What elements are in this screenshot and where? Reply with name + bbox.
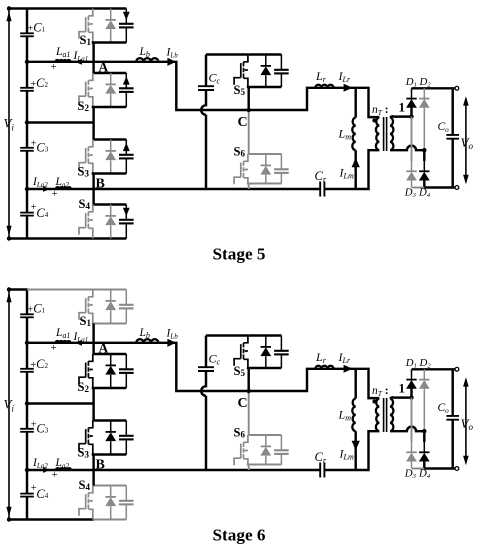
S2 cell top wire (94, 353, 127, 355)
S3 cell top wire (94, 419, 127, 421)
diode D4 (black) (423, 442, 425, 452)
current arrow ILa2 (right) (43, 467, 50, 473)
S5 cell bottom wire (247, 367, 282, 369)
svg-text:1: 1 (399, 381, 406, 396)
output terminal top (455, 86, 459, 90)
Lm lower lead (354, 150, 356, 189)
svg-text:C: C (238, 396, 248, 411)
S1 cell bottom wire (92, 323, 127, 325)
S6 source lead (247, 459, 249, 464)
current arrow ILa1 (left) (75, 59, 82, 65)
svg-text:B: B (96, 458, 105, 473)
transformer polarity dot (372, 119, 376, 123)
transformer polarity dot (372, 400, 376, 404)
S5 diode lead (265, 356, 267, 368)
bridge bottom rail gray segment (412, 468, 425, 470)
S4 snubber capacitor (125, 486, 127, 501)
secondary bottom lead with hop over left bridge leg (390, 146, 424, 151)
Vi arrowhead up (6, 11, 11, 21)
inductor Lb (136, 58, 158, 62)
Vi top dot (7, 287, 11, 291)
output voltage annotation Vo (465, 99, 467, 182)
S6 body diode (265, 154, 267, 165)
transformer primary winding (376, 399, 379, 432)
S5 body diode (265, 336, 267, 347)
transistor S3 (MOSFET) (88, 421, 92, 428)
Vo arrowhead down (463, 456, 469, 465)
capacitor Cr (320, 182, 324, 197)
S6 cell bottom wire (247, 183, 282, 185)
S2 cell bottom wire (92, 387, 127, 389)
S1 leg to node A (92, 43, 94, 62)
wire node B horizontal run (left of Cr) (27, 469, 320, 471)
S5 body diode (265, 55, 267, 66)
wire node B horizontal run (right of Cr) (325, 431, 380, 470)
current arrow ILa1 (left) (75, 340, 82, 346)
S2 capacitor lead (125, 373, 127, 388)
bridge bottom rail black segment (424, 186, 455, 188)
capacitor Cc branch (vertical with crossover hop) (201, 336, 206, 471)
transistor S2 (MOSFET) (88, 354, 92, 361)
S5 leg to node C (247, 368, 249, 391)
capacitor Co plates (446, 135, 459, 139)
D1 lower lead (410, 389, 412, 398)
left bridge junction dot (409, 114, 413, 118)
svg-text:Stage 6: Stage 6 (213, 526, 266, 545)
S3 bottom leg to node B (92, 174, 94, 190)
D2 lower lead (423, 108, 425, 151)
S1 snubber capacitor (125, 9, 127, 24)
bottom rail (black part) (9, 518, 94, 520)
Vi bottom dot (7, 236, 11, 240)
current arrow ILr (right) (344, 84, 353, 92)
S6 cell top wire (249, 434, 282, 436)
S5 cell top wire (249, 53, 282, 55)
Vi bottom dot (7, 517, 11, 521)
input voltage annotation Vi (stage 6) (8, 290, 10, 520)
transformer core bars (384, 398, 387, 432)
inductor La1 (55, 341, 70, 343)
svg-text:+: + (52, 469, 58, 481)
current arrow ILb (right) (167, 58, 176, 66)
S6 body diode (265, 435, 267, 446)
S1 body diode (110, 290, 112, 301)
S4 body diode (110, 205, 112, 216)
inductor Lr (315, 85, 333, 88)
S3 diode lead (110, 160, 112, 173)
node C junction (247, 108, 251, 112)
S4 snubber capacitor (125, 205, 127, 220)
svg-text:+: + (51, 342, 57, 354)
transistor S3 (MOSFET) (88, 140, 92, 147)
output capacitor Co branch (451, 88, 453, 187)
inductor Lb (136, 339, 158, 343)
S3 body diode (110, 421, 112, 432)
top rail (9, 7, 126, 9)
D3 lower lead (411, 461, 413, 468)
top rail (black part) (9, 288, 28, 290)
D4 lower lead (423, 461, 425, 468)
S3 diode lead (110, 441, 112, 454)
input bus (left vertical) (26, 290, 28, 520)
S2 cell bottom wire (92, 106, 127, 108)
current arrow ILr (right) (344, 365, 353, 373)
S1 source lead (92, 314, 94, 324)
S6 stub to bottom net (gray) (248, 184, 250, 190)
node A tap junction (25, 341, 29, 345)
left bridge junction dot (409, 395, 413, 399)
capacitor C3 (20, 428, 34, 430)
capacitor Cc plates (198, 367, 214, 371)
D2 lower lead (423, 389, 425, 432)
S4 diode lead (110, 225, 112, 238)
S4 source lead (92, 510, 94, 520)
capacitor C3 (20, 147, 34, 149)
mid tap wire (27, 402, 94, 404)
transistor S6 (MOSFET) (244, 154, 248, 161)
S2 source lead (92, 378, 94, 388)
S2 bottom leg to mid tap (92, 107, 94, 123)
S2 capacitor lead (125, 92, 127, 107)
S4 top leg from node B (92, 189, 94, 205)
inductor La1 (55, 60, 70, 62)
S2 diode lead (110, 94, 112, 107)
D3 lower lead (411, 180, 413, 187)
transformer core bars (384, 117, 387, 151)
S1 snubber capacitor (125, 290, 127, 305)
svg-text:Stage 5: Stage 5 (213, 245, 266, 264)
S6 snubber capacitor (280, 154, 282, 169)
secondary bottom lead with hop over left bridge leg (390, 427, 424, 432)
S6 cell bottom wire (247, 464, 282, 466)
S5 cell bottom wire (247, 86, 282, 88)
S6 snubber capacitor (280, 435, 282, 450)
node A tap junction (25, 60, 29, 64)
current arrow ILm (up) (352, 158, 360, 168)
transistor S2 (MOSFET) (88, 73, 92, 80)
S2 bottom leg to mid tap (92, 388, 94, 404)
Vo arrowhead down (463, 175, 469, 184)
input bus (left vertical) (26, 9, 28, 239)
left leg gray segment (411, 398, 413, 442)
capacitor C4 (20, 212, 34, 214)
node B tap junction (25, 187, 29, 191)
output terminal bottom (455, 467, 459, 471)
transistor S5 (MOSFET) (244, 336, 248, 343)
output capacitor Co branch (451, 369, 453, 468)
svg-text:B: B (96, 177, 105, 192)
mid tap junction (25, 401, 29, 405)
S3 cell bottom wire (92, 453, 127, 455)
S3 source lead (92, 445, 94, 455)
mid tap junction (25, 120, 29, 124)
S4 capacitor lead (125, 504, 127, 519)
S5 cell top wire (249, 334, 282, 336)
S4 capacitor lead (125, 223, 127, 238)
capacitor C2 (20, 368, 34, 370)
bottom rail (9, 237, 126, 239)
diode D1 (black) (411, 88, 413, 98)
output terminal top (455, 367, 459, 371)
Lm lower lead (354, 431, 356, 470)
Vi arrowhead up (6, 292, 11, 302)
diode D1 (black) (411, 369, 413, 379)
S3 cell bottom wire (92, 172, 127, 174)
output voltage annotation Vo (465, 380, 467, 463)
S6 cell top wire (249, 153, 282, 155)
S4 body diode (110, 486, 112, 497)
S2 snubber capacitor (125, 73, 127, 88)
transistor S4 (MOSFET) (88, 205, 92, 212)
S5 cell top wire from Cc (206, 53, 249, 55)
S4 capacitor current arrow (down) (123, 208, 130, 216)
left leg gray segment (411, 117, 413, 161)
S1 capacitor lead (125, 308, 127, 323)
S5 cell top wire from Cc (206, 334, 249, 336)
S5 snubber capacitor (280, 55, 282, 70)
S1 capacitor current arrow (down) (123, 12, 130, 20)
S6 capacitor lead (280, 173, 282, 184)
current arrow ILa2 (right) (43, 186, 50, 192)
S3 snubber capacitor (125, 421, 127, 436)
current arrow ILb (right) (167, 339, 176, 347)
S5 diode lead (265, 75, 267, 87)
transistor S6 (MOSFET) (244, 435, 248, 442)
S5 snubber capacitor (280, 336, 282, 351)
S2 diode lead (110, 375, 112, 388)
S3 capacitor lead (125, 439, 127, 454)
bridge top rail (412, 368, 456, 370)
S3 body diode (110, 140, 112, 151)
svg-text:+: + (51, 61, 57, 73)
S2 top leg from node A (92, 343, 94, 354)
S6 diode lead (265, 175, 267, 184)
S3 top leg from mid tap (92, 404, 94, 421)
S3 capacitor current arrow (up) (123, 143, 130, 151)
S5 leg to node C (247, 87, 249, 110)
capacitor C1 (20, 313, 34, 315)
S3 top leg from mid tap (92, 123, 94, 140)
capacitor C2 (20, 87, 34, 89)
S6 leg from node C (gray) (248, 110, 250, 154)
right leg black segment (423, 150, 425, 161)
secondary top lead (390, 397, 412, 398)
node B tap junction (25, 468, 29, 472)
inductor Lm coil (352, 118, 355, 151)
S1 source lead (92, 33, 94, 43)
transistor S1 (MOSFET) (88, 9, 92, 16)
top rail (gray part) (27, 289, 126, 291)
wire node B horizontal run (left of Cr) (27, 188, 320, 190)
diode D3 (gray) (411, 161, 413, 171)
transistor S1 (MOSFET) (88, 290, 92, 297)
transformer secondary winding (390, 118, 393, 151)
S5 capacitor lead (280, 73, 282, 87)
S1 cell bottom wire (92, 41, 127, 43)
output terminal bottom (455, 186, 459, 190)
capacitor Cc branch (vertical with crossover hop) (201, 55, 206, 190)
diode D3 (gray) (411, 442, 413, 452)
Vi arrowhead down (6, 507, 11, 517)
S6 leg from node C (gray) (248, 391, 250, 435)
S6 capacitor lead (280, 454, 282, 465)
svg-text:1: 1 (399, 100, 406, 115)
S3 cell top wire (94, 138, 127, 140)
secondary top lead (390, 116, 412, 117)
Vi top dot (7, 6, 11, 10)
bottom rail (gray part) (94, 519, 127, 521)
S5 source lead (247, 79, 249, 87)
S1 diode lead (110, 29, 112, 42)
wire node B horizontal run (right of Cr) (325, 150, 380, 189)
S1 capacitor lead (125, 27, 127, 42)
S2 top leg from node A (92, 62, 94, 73)
S3 source lead (92, 164, 94, 174)
S2 body diode (110, 73, 112, 84)
current arrow ILm (down) (352, 441, 360, 451)
magnetizing inductance Lm branch (354, 88, 356, 118)
S5 source lead (247, 360, 249, 368)
S4 diode lead (110, 506, 112, 519)
S2 capacitor current arrow (up) (123, 76, 130, 84)
S2 body diode (110, 354, 112, 365)
svg-text:+: + (52, 188, 58, 200)
right bridge junction dot (422, 148, 426, 152)
capacitor Cr (320, 463, 324, 478)
D4 lower lead (423, 180, 425, 187)
magnetizing inductance Lm branch (354, 369, 356, 399)
capacitor Cc plates (198, 86, 214, 90)
bridge bottom rail black segment (424, 467, 455, 469)
S2 cell top wire (94, 72, 127, 74)
svg-text:C: C (238, 115, 248, 130)
transistor S4 (MOSFET) (88, 486, 92, 493)
right leg black segment (423, 431, 425, 442)
Vo arrowhead up (463, 377, 469, 386)
S3 bottom leg to node B (92, 455, 94, 471)
S4 cell top wire (94, 485, 127, 487)
S6 source lead (247, 178, 249, 183)
S4 source lead (92, 229, 94, 239)
S2 snubber capacitor (125, 354, 127, 369)
S1 body diode (110, 9, 112, 20)
inductor La2 (56, 468, 71, 470)
right bridge junction dot (422, 429, 426, 433)
D1 lower lead (410, 108, 412, 117)
S2 source lead (92, 97, 94, 107)
inductor La2 (56, 187, 71, 189)
mid tap wire (27, 121, 94, 123)
S1 diode lead (110, 310, 112, 323)
S5 capacitor lead (280, 354, 282, 368)
diode D2 (gray) (423, 369, 425, 379)
S4 top leg from node B (92, 470, 94, 486)
capacitor Co plates (446, 416, 459, 420)
inductor Lm coil (352, 399, 355, 432)
input voltage annotation Vi (stage 5) (8, 9, 10, 239)
Vi arrowhead down (6, 226, 11, 236)
capacitor C1 (20, 32, 34, 34)
S3 snubber capacitor (125, 140, 127, 155)
bridge top rail (412, 87, 456, 89)
diode D4 (black) (423, 161, 425, 171)
transformer secondary winding (390, 399, 393, 432)
diode D2 (gray) (423, 88, 425, 98)
wire node A horizontal run (27, 62, 379, 117)
node C junction (247, 389, 251, 393)
S6 stub to bottom net (gray) (248, 465, 250, 471)
S4 cell top wire (94, 203, 127, 205)
Vo arrowhead up (463, 96, 469, 105)
transformer primary winding (376, 118, 379, 151)
transistor S5 (MOSFET) (244, 55, 248, 62)
S6 diode lead (265, 456, 267, 465)
inductor Lr (315, 366, 333, 369)
S1 leg to node A (92, 324, 94, 343)
S3 capacitor lead (125, 158, 127, 173)
wire node A horizontal run (27, 343, 379, 398)
capacitor C4 (20, 493, 34, 495)
bridge bottom rail gray segment (412, 187, 425, 189)
